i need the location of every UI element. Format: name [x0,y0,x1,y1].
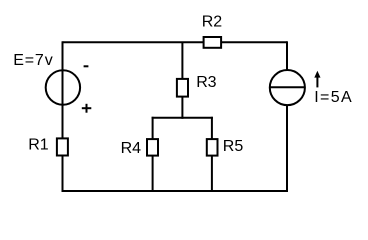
svg-text:R4: R4 [121,140,142,157]
svg-text:R1: R1 [28,137,49,154]
wire top horizontal right segment (R2 right pin to current source top) [221,41,287,43]
svg-text:I=5A: I=5A [314,89,352,106]
svg-text:R3: R3 [196,74,216,91]
voltage source E circle [46,70,80,104]
label minus (polarity of E) [84,65,89,67]
wire middle horizontal bar (split to R4 and R5) [152,117,213,119]
resistor R1 body [57,138,68,155]
svg-text:R2: R2 [202,13,223,30]
resistor R4 body [147,139,158,156]
voltage source E internal wire (vertical line through circle) [62,70,64,105]
wire bottom horizontal (bottom node) [62,190,289,192]
wire R5 branch bottom [211,155,213,191]
wire R3 bottom pin to middle bar [181,96,183,119]
wire left vertical through E source down to R1 top pin [62,41,64,139]
wire R4 branch top [152,117,154,140]
wire top horizontal left segment (node E top to R2 left pin) [63,41,204,43]
wire R5 branch top [211,117,213,140]
current source I circle [270,70,305,105]
svg-text:R5: R5 [223,138,244,155]
resistor R3 body [177,79,188,97]
wire R3 branch from top node down to R3 top pin [181,42,183,80]
current source arrow (pointing up) [314,71,320,88]
current source I internal bar (horizontal line) [270,86,305,88]
resistor R2 body [204,37,222,48]
label plus (polarity of E) [82,104,92,113]
wire right vertical top node to current source top pin [286,41,288,70]
wire right vertical current source bottom pin to bottom node [286,105,288,192]
resistor R5 body [207,139,218,156]
svg-text:E=7v: E=7v [13,52,53,69]
wire left vertical R1 bottom pin to bottom node [62,155,64,193]
wire R4 branch bottom [152,155,154,191]
